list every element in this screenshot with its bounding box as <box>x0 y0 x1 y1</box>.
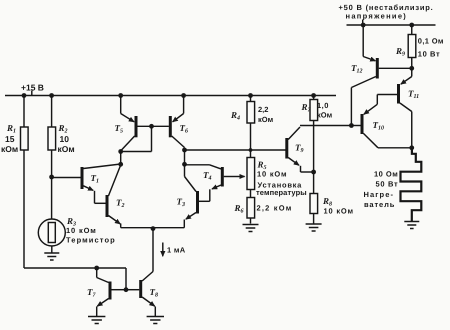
resistor R1 <box>21 96 29 269</box>
R5 label <box>256 160 307 198</box>
+15V power rail <box>5 91 336 96</box>
ground (R3) <box>44 253 59 260</box>
svg-text:15: 15 <box>5 134 15 144</box>
svg-text:R2: R2 <box>58 123 68 135</box>
transistor T10 <box>351 95 411 148</box>
+50V power rail <box>347 20 436 26</box>
wire to T1 base <box>52 177 81 179</box>
node: T1 collector junction <box>118 162 123 167</box>
transistor T9 <box>287 127 314 172</box>
transistor T1 <box>82 164 121 203</box>
node: tail current junction <box>151 226 156 231</box>
wire: right collector column <box>184 150 186 177</box>
wire: R1 to current mirror <box>24 267 126 269</box>
node: T9 emitter / R8 <box>311 170 316 175</box>
node: T3/T4 collector junction <box>182 162 187 167</box>
R1 value label <box>1 123 18 154</box>
svg-text:T6: T6 <box>180 123 189 135</box>
transistor T7 <box>97 268 126 316</box>
svg-text:2,2: 2,2 <box>258 105 268 114</box>
transistor T4 <box>185 165 239 202</box>
svg-text:кОм: кОм <box>317 111 333 120</box>
R4 label <box>230 105 274 124</box>
wire: down to mirror bases <box>125 268 127 290</box>
svg-text:Нагре-: Нагре- <box>364 190 395 199</box>
svg-text:ватель: ватель <box>364 200 395 209</box>
node: T5/T6 base tie <box>149 124 154 129</box>
wire: T12 collector to T10 base <box>350 88 352 126</box>
node: T7/T8 base tie <box>124 287 129 292</box>
+50V label <box>339 3 434 21</box>
potentiometer R5 <box>239 150 255 190</box>
node: +50V junctions <box>361 23 414 28</box>
svg-text:T4: T4 <box>203 170 212 182</box>
node: R2 / T1 base / R3 junction <box>49 175 54 180</box>
ground (R8) <box>306 224 322 231</box>
transistor T3 <box>184 177 210 228</box>
node: T5 collector junction <box>118 149 123 154</box>
ground (heater) <box>404 222 419 229</box>
node: rail junction dots <box>22 93 316 98</box>
ground (R6) <box>243 225 259 232</box>
svg-text:1 мА: 1 мА <box>167 246 186 255</box>
ground (T8) <box>147 317 164 324</box>
transistor T2 <box>107 165 121 228</box>
svg-text:+15 В: +15 В <box>21 83 44 93</box>
R7 label <box>301 101 333 120</box>
svg-text:T7: T7 <box>87 287 97 299</box>
transistor T11 <box>377 68 411 148</box>
svg-text:T2: T2 <box>116 198 125 210</box>
svg-text:50 Вт: 50 Вт <box>376 180 399 189</box>
svg-text:T5: T5 <box>115 123 124 135</box>
R6 label <box>234 203 293 215</box>
svg-text:Термистор: Термистор <box>66 236 116 245</box>
svg-text:T9: T9 <box>295 143 304 155</box>
wire: common emitter rail <box>121 227 185 229</box>
svg-text:1,0: 1,0 <box>317 101 329 110</box>
R9 label <box>395 37 444 59</box>
svg-text:температуры: температуры <box>256 188 307 197</box>
svg-text:напряжение): напряжение) <box>346 12 408 21</box>
svg-text:кОм: кОм <box>58 144 75 154</box>
ground (T7) <box>88 317 105 324</box>
resistor R4 <box>247 96 255 151</box>
svg-text:2,2 кОм: 2,2 кОм <box>257 204 293 213</box>
heater element (10 Ohm 50 W) <box>401 148 422 221</box>
svg-text:T8: T8 <box>150 287 159 299</box>
svg-text:T11: T11 <box>408 89 419 101</box>
node: R4/R5 tap on wire <box>249 148 253 152</box>
wire: tail to T8 collector <box>152 228 154 272</box>
svg-text:T1: T1 <box>91 173 100 185</box>
R8 label <box>322 196 354 216</box>
svg-text:10: 10 <box>60 134 70 144</box>
resistor R6 <box>247 190 255 224</box>
transistor T5 <box>121 96 169 151</box>
transistor T6 <box>170 96 184 151</box>
svg-text:R6: R6 <box>234 203 244 215</box>
node: T10 base junction <box>349 123 354 128</box>
svg-text:T12: T12 <box>351 63 363 75</box>
svg-text:R9: R9 <box>395 46 405 58</box>
svg-text:10 Вт: 10 Вт <box>418 50 440 59</box>
svg-text:кОм: кОм <box>258 115 274 124</box>
svg-text:10 кОм: 10 кОм <box>66 226 97 235</box>
R3 label <box>66 216 116 245</box>
resistor R2 <box>48 96 56 178</box>
node: T7 collector tap <box>94 266 99 271</box>
wire: T6 collector to T9 base <box>185 149 286 151</box>
R2 value label <box>58 123 75 154</box>
svg-text:кОм: кОм <box>1 144 18 154</box>
heater label <box>364 170 399 210</box>
svg-text:R4: R4 <box>230 110 240 122</box>
svg-text:T10: T10 <box>373 120 385 132</box>
wire: T9 collector to T10 base <box>300 125 352 127</box>
resistor R8 <box>310 172 318 224</box>
1 mA current arrow <box>162 243 164 257</box>
transistor T8 <box>126 272 155 317</box>
svg-text:T3: T3 <box>177 197 186 209</box>
wire: mirror base to T5 collector <box>121 126 152 151</box>
svg-text:0,1 Ом: 0,1 Ом <box>418 37 444 46</box>
svg-text:10 Ом: 10 Ом <box>374 170 398 179</box>
resistor R7 <box>310 96 318 126</box>
wire: left collector column <box>120 152 122 165</box>
node: heater output junction <box>409 145 414 150</box>
wire: R7 node down to emitter node <box>313 126 315 173</box>
transistor T12 <box>351 25 411 88</box>
svg-text:10 кОм: 10 кОм <box>324 207 354 216</box>
node: T6 collector / T9 base wire <box>182 148 187 153</box>
thermistor R3 <box>38 177 65 253</box>
node: R9 bottom / T12 base <box>409 66 414 71</box>
resistor R9 <box>408 25 416 68</box>
svg-text:R1: R1 <box>6 123 16 135</box>
svg-text:10 кОм: 10 кОм <box>257 170 287 179</box>
